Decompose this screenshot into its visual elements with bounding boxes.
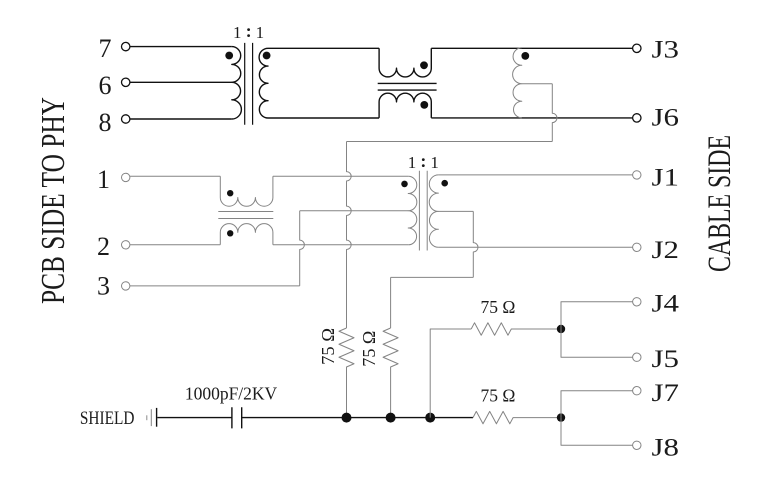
wire pin6 to T1 center tap	[130, 81, 232, 83]
svg-text:1: 1	[233, 23, 242, 42]
wire L1 center tap	[522, 83, 553, 85]
L1 dot	[521, 52, 529, 60]
wire pin3 to T2 center tap	[300, 210, 409, 212]
capacitor C1 plates	[232, 407, 242, 428]
resistor R4 75ohm horizontal	[473, 411, 561, 423]
transformer T1 secondary dot	[263, 52, 271, 60]
svg-text:J4: J4	[652, 291, 680, 318]
wire pin3 up with hop over pin2 wire	[300, 211, 305, 286]
svg-text:J2: J2	[652, 237, 680, 264]
svg-text:2: 2	[97, 232, 110, 261]
autotransformer L1 winding	[513, 48, 522, 118]
junction dot J7/J8 branch	[557, 413, 565, 421]
wire branch to J7	[561, 391, 633, 418]
pin 8 terminal	[122, 115, 130, 123]
wire CMC1 to J6	[431, 117, 632, 119]
pin J8 terminal	[633, 441, 641, 449]
wire down to R2	[390, 277, 392, 328]
pin 3 terminal	[122, 282, 130, 290]
svg-text:6: 6	[99, 71, 112, 100]
wire capacitor to bus	[242, 417, 473, 419]
wire T2 secondary tap right	[438, 210, 473, 212]
wire shield to capacitor	[157, 417, 232, 419]
pin 1 terminal	[122, 173, 130, 181]
svg-text:J8: J8	[652, 434, 680, 461]
transformer T2 primary dot	[401, 181, 408, 188]
transformer T2 core	[419, 171, 427, 251]
pin J2 terminal	[633, 243, 641, 251]
junction dot J4/J5 branch	[557, 325, 565, 333]
CMC2 top winding dot	[227, 190, 233, 196]
svg-text:75 Ω: 75 Ω	[481, 385, 516, 405]
junction dot bus at R2	[386, 413, 396, 423]
CMC2 core	[218, 212, 273, 219]
wire pin3 across	[130, 285, 300, 287]
wire branch to J5	[561, 329, 633, 357]
junction dot bus at R1	[342, 413, 352, 423]
wire CMC2 to T2 bottom	[273, 244, 408, 246]
svg-text:1: 1	[430, 153, 439, 172]
pin J4 terminal	[633, 298, 641, 306]
transformer T2 secondary winding	[429, 175, 438, 247]
wire pin8 to T1	[130, 118, 232, 120]
svg-text:CABLE SIDE: CABLE SIDE	[702, 135, 738, 272]
wire vertical to R1 with hops	[347, 142, 352, 329]
pin J5 terminal	[633, 353, 641, 361]
pin 7 terminal	[122, 42, 130, 50]
wire T2 to J2	[438, 246, 632, 248]
pin J3 terminal	[633, 44, 641, 52]
svg-text:SHIELD: SHIELD	[80, 409, 134, 429]
svg-text:75 Ω: 75 Ω	[481, 297, 516, 317]
resistor R3 75ohm horizontal	[471, 323, 561, 335]
wire L1 tap down with hop over J6 wire	[552, 84, 557, 142]
pin J7 terminal	[633, 387, 641, 395]
pin 2 terminal	[122, 241, 130, 249]
wire pin7 to T1	[130, 46, 232, 48]
resistor R2 75ohm vertical	[383, 328, 398, 418]
svg-text:J1: J1	[652, 164, 680, 191]
common-mode choke CMC1 top winding	[379, 48, 431, 77]
pin 6 terminal	[122, 78, 130, 86]
wire CMC1 to J3	[431, 47, 632, 49]
svg-text:7: 7	[99, 34, 112, 63]
wire branch to J4	[561, 302, 633, 357]
junction dot bus at R3 branch	[425, 413, 435, 423]
svg-text:J6: J6	[652, 105, 680, 132]
transformer T1 core	[245, 43, 253, 125]
transformer T1 secondary winding	[259, 48, 268, 118]
pin J6 terminal	[633, 114, 641, 122]
svg-text:75 Ω: 75 Ω	[318, 328, 338, 365]
svg-text:PCB SIDE TO PHY: PCB SIDE TO PHY	[35, 97, 72, 304]
svg-text:J5: J5	[652, 346, 680, 373]
pin J1 terminal	[633, 171, 641, 179]
wire tap across left	[391, 276, 474, 278]
svg-text:3: 3	[97, 272, 110, 301]
svg-text:1: 1	[256, 23, 265, 42]
wire T2 to J1	[438, 174, 632, 176]
wire bus branch up to R3	[430, 329, 471, 418]
svg-text:J7: J7	[652, 380, 680, 407]
svg-text:75 Ω: 75 Ω	[359, 331, 379, 367]
CMC1 core	[378, 83, 437, 90]
common-mode choke CMC2 top winding	[220, 176, 273, 206]
svg-text:1000pF/2KV: 1000pF/2KV	[185, 383, 278, 403]
wire branch to J8	[561, 418, 633, 446]
CMC1 bottom winding dot	[420, 101, 428, 109]
svg-text:J3: J3	[652, 36, 680, 63]
svg-text:8: 8	[99, 108, 112, 137]
CMC1 top winding dot	[420, 61, 428, 69]
wire CMC2 to T2 top	[273, 175, 408, 177]
wire tap across to left	[347, 141, 553, 143]
CMC2 bottom winding	[220, 224, 273, 245]
transformer T2 secondary dot	[441, 180, 448, 187]
transformer T1 primary dot	[225, 52, 233, 60]
transformer T2 primary winding	[408, 176, 417, 245]
wire tap down with hop over J2 wire	[473, 211, 478, 277]
wire T1 to CMC1 top	[268, 47, 379, 49]
svg-text:1: 1	[97, 165, 110, 194]
transformer T1 primary winding	[232, 47, 242, 119]
wire T1 to CMC1 bottom	[268, 117, 379, 119]
wire pin2 to CMC2	[130, 244, 220, 246]
resistor R1 75ohm vertical	[339, 328, 354, 418]
CMC2 bottom winding dot	[227, 230, 233, 236]
svg-text:1: 1	[408, 153, 417, 172]
CMC1 bottom winding	[379, 93, 431, 118]
wire pin1 to CMC2	[130, 175, 220, 177]
shield terminal bars	[146, 415, 148, 420]
